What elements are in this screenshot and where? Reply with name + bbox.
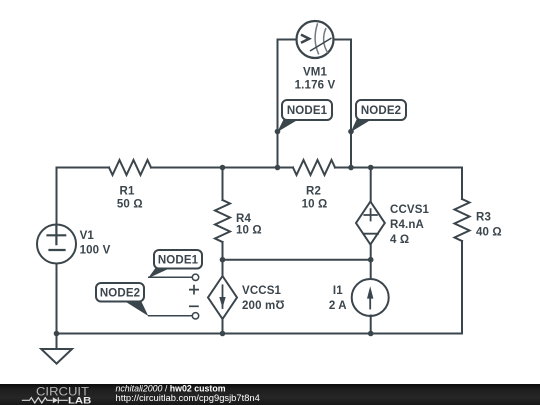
label VCCS1	[242, 285, 285, 312]
label R1	[117, 186, 143, 211]
svg-text:NODE2: NODE2	[361, 105, 401, 117]
middle horizontal wire	[223, 259, 371, 261]
svg-text:10 Ω: 10 Ω	[302, 198, 328, 210]
svg-text:10 Ω: 10 Ω	[236, 224, 262, 236]
wire left branch V1 top	[56, 168, 58, 225]
node dot bottom rail VCCS1	[220, 331, 226, 337]
wire R4 branch top	[222, 168, 224, 201]
svg-text:CCVS1: CCVS1	[390, 204, 430, 216]
footer credit line	[116, 383, 226, 393]
svg-text:200 mƱ: 200 mƱ	[242, 300, 285, 312]
resistor R3	[455, 199, 470, 241]
svg-text:R3: R3	[476, 212, 491, 224]
ground	[41, 349, 72, 364]
node dot top wire CCVS1 branch	[368, 165, 374, 171]
svg-text:50 Ω: 50 Ω	[117, 198, 143, 210]
svg-text:R1: R1	[119, 186, 134, 198]
node dot middle wire right	[368, 257, 374, 263]
svg-text:LAB: LAB	[68, 395, 91, 405]
label R3	[476, 212, 502, 239]
footer url line	[116, 392, 260, 403]
footer bar	[0, 384, 540, 405]
wire CCVS1 branch top	[370, 168, 372, 202]
node flag NODE2 lower	[96, 283, 148, 316]
node dot NODE1 flag attach	[275, 129, 281, 135]
wire VCCS1 bottom	[222, 319, 224, 334]
resistor R4	[215, 200, 230, 242]
wire CCVS1 bottom to I1 top	[370, 245, 372, 280]
VCCS1 sense minus sign	[189, 305, 199, 307]
node dot top wire NODE2 branch	[348, 165, 354, 171]
label R4	[236, 213, 262, 237]
wire top horizontal left of R1	[57, 167, 110, 169]
wire V1 bottom to bottom rail	[56, 264, 58, 349]
CircuitLab logo	[22, 384, 92, 405]
svg-text:http://circuitlab.com/cpg9gsjb: http://circuitlab.com/cpg9gsjb7t8n4	[116, 392, 260, 403]
wire top horizontal R2 to R3 branch	[335, 167, 462, 169]
dependent source VCCS1	[208, 276, 237, 319]
VCCS1 sense plus sign	[189, 285, 199, 295]
wire top horizontal R1 to R2	[151, 167, 293, 169]
node dot bottom rail I1	[368, 331, 374, 337]
node flag NODE1 lower	[148, 250, 202, 278]
label R2	[302, 185, 328, 210]
voltage source V1	[37, 225, 76, 264]
VCCS1 sense wire minus	[148, 315, 192, 317]
wire R3 branch top	[461, 168, 463, 200]
svg-text:NODE2: NODE2	[100, 287, 140, 299]
wire R3 bottom	[461, 241, 463, 334]
wire bottom rail	[57, 333, 463, 335]
node dot top wire R4 branch	[220, 165, 226, 171]
current source I1	[352, 279, 389, 316]
svg-text:R4.nA: R4.nA	[390, 219, 424, 231]
svg-text:NODE1: NODE1	[158, 254, 199, 266]
svg-text:V1: V1	[80, 230, 95, 242]
resistor R2	[293, 160, 335, 175]
VCCS1 sense terminal plus	[192, 274, 198, 280]
VCCS1 sense terminal minus	[192, 313, 198, 319]
svg-text:40 Ω: 40 Ω	[476, 226, 502, 238]
svg-text:2 A: 2 A	[329, 300, 347, 312]
node dot NODE2 flag attach	[348, 129, 354, 135]
svg-text:NODE1: NODE1	[287, 105, 328, 117]
svg-text:VM1: VM1	[303, 67, 328, 79]
dependent source CCVS1	[356, 202, 385, 245]
svg-text:R2: R2	[306, 185, 321, 197]
svg-text:I1: I1	[333, 285, 343, 297]
node dot middle wire left	[220, 257, 226, 263]
node dot bottom rail left	[54, 331, 60, 337]
wire voltmeter left lead	[278, 40, 297, 168]
svg-text:1.176 V: 1.176 V	[295, 80, 336, 92]
svg-text:4 Ω: 4 Ω	[390, 234, 409, 246]
svg-text:VCCS1: VCCS1	[242, 285, 282, 297]
label VM1	[295, 67, 336, 92]
wire voltmeter right lead	[334, 40, 352, 168]
label CCVS1	[390, 204, 430, 246]
svg-text:100 V: 100 V	[80, 244, 111, 256]
node dot top wire NODE1 branch	[275, 165, 281, 171]
wire I1 bottom	[370, 316, 372, 334]
node flag NODE1 top	[277, 100, 332, 132]
voltmeter VM1	[297, 21, 334, 58]
label V1	[80, 230, 111, 256]
wire R4 bottom to VCCS1 top	[222, 242, 224, 276]
label I1	[329, 285, 347, 312]
svg-text:R4: R4	[236, 213, 251, 225]
resistor R1	[109, 160, 151, 175]
node flag NODE2 top	[351, 100, 406, 132]
VCCS1 sense wire plus	[148, 276, 192, 278]
